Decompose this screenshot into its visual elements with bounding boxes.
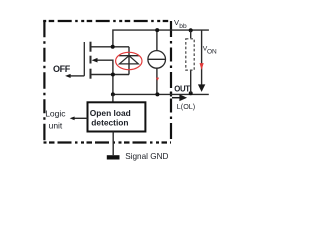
svg-text:Logic: Logic [45,108,66,118]
svg-text:Open load: Open load [90,108,131,118]
svg-text:L(OL): L(OL) [177,102,195,111]
svg-text:detection: detection [91,118,128,128]
svg-text:ON: ON [207,49,217,56]
svg-text:OFF: OFF [53,64,71,74]
svg-text:bb: bb [179,23,187,30]
svg-text:Signal GND: Signal GND [125,152,168,161]
svg-text:OUT: OUT [174,84,190,93]
svg-text:unit: unit [49,120,63,130]
